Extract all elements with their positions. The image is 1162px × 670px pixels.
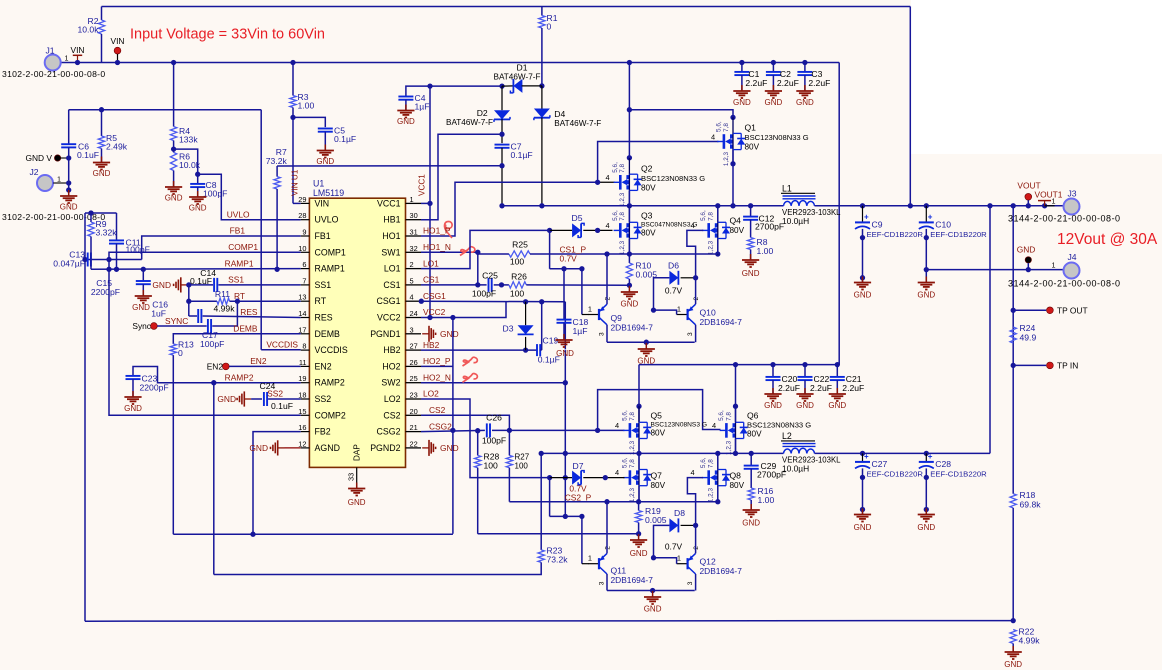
svg-text:3: 3 bbox=[687, 581, 694, 585]
wire R4-R6 tap to C8 bbox=[174, 149, 198, 183]
junction bbox=[908, 203, 913, 208]
svg-text:VCC2: VCC2 bbox=[423, 307, 446, 317]
capacitor C8 bbox=[190, 184, 205, 187]
svg-text:2DB1694-7: 2DB1694-7 bbox=[700, 566, 743, 576]
svg-text:VIN U1: VIN U1 bbox=[291, 169, 300, 196]
junction bbox=[563, 451, 568, 456]
svg-text:2: 2 bbox=[410, 260, 414, 269]
wire bbox=[581, 516, 583, 563]
svg-text:1,2,3: 1,2,3 bbox=[708, 488, 715, 503]
svg-text:J2: J2 bbox=[29, 167, 38, 177]
svg-text:FB1: FB1 bbox=[315, 231, 331, 241]
svg-text:GND V: GND V bbox=[25, 153, 52, 163]
wire SW1 pin to R25 bbox=[421, 251, 478, 253]
svg-text:7,8: 7,8 bbox=[725, 412, 732, 421]
wire bbox=[582, 314, 589, 316]
svg-text:AGND: AGND bbox=[315, 443, 340, 453]
wire bbox=[1013, 364, 1046, 366]
svg-text:CSG1: CSG1 bbox=[377, 296, 401, 306]
junction bbox=[636, 404, 641, 409]
svg-text:GND: GND bbox=[440, 443, 459, 453]
junction bbox=[66, 180, 71, 185]
junction bbox=[715, 203, 720, 208]
svg-text:GND: GND bbox=[630, 549, 648, 558]
pin 11 EN2 bbox=[301, 365, 310, 367]
wire LO2 gate drive bbox=[421, 399, 550, 478]
svg-text:15: 15 bbox=[298, 407, 306, 416]
svg-text:1.00: 1.00 bbox=[298, 101, 315, 111]
wire to C5 bbox=[293, 117, 325, 127]
resistor R3 bbox=[290, 96, 296, 108]
wire D3 cathode bbox=[525, 337, 527, 350]
connector J3 bbox=[1064, 199, 1080, 215]
diode D3 bbox=[518, 325, 534, 334]
junction bbox=[88, 210, 93, 215]
svg-text:SYNC: SYNC bbox=[165, 316, 188, 326]
svg-text:SS2: SS2 bbox=[267, 389, 283, 399]
svg-text:7,8: 7,8 bbox=[629, 459, 636, 468]
junction bbox=[547, 475, 552, 480]
wire VCC1 pin bbox=[421, 202, 430, 204]
svg-text:1: 1 bbox=[1052, 261, 1056, 270]
ground C23 bbox=[124, 391, 141, 404]
svg-text:GND: GND bbox=[742, 519, 760, 528]
wire bbox=[628, 206, 630, 222]
wire bbox=[173, 63, 175, 127]
pin 28 UVLO bbox=[301, 219, 310, 221]
wire emitters bbox=[607, 341, 695, 343]
ground C28 bbox=[918, 509, 935, 522]
junction bbox=[693, 523, 698, 528]
svg-text:26: 26 bbox=[410, 358, 418, 367]
wire bbox=[638, 439, 640, 454]
junction bbox=[106, 267, 111, 272]
wire bbox=[628, 191, 630, 206]
junction bbox=[860, 275, 865, 280]
svg-text:0: 0 bbox=[178, 348, 183, 358]
svg-text:80V: 80V bbox=[745, 143, 760, 152]
junction bbox=[1026, 267, 1031, 272]
ground C1 bbox=[733, 85, 750, 98]
svg-text:11: 11 bbox=[299, 358, 307, 367]
svg-text:0.1µF: 0.1µF bbox=[511, 150, 533, 160]
svg-text:VOUT1: VOUT1 bbox=[1035, 190, 1063, 200]
svg-text:J3: J3 bbox=[1067, 189, 1076, 199]
junction bbox=[427, 315, 432, 320]
svg-text:23: 23 bbox=[410, 391, 418, 400]
junction bbox=[1042, 203, 1047, 208]
wire bbox=[772, 63, 774, 72]
svg-text:2.2uF: 2.2uF bbox=[745, 78, 767, 88]
junction bbox=[636, 499, 641, 504]
svg-text:100: 100 bbox=[510, 257, 525, 267]
svg-text:FB1: FB1 bbox=[230, 226, 246, 236]
wire feedback divider bbox=[1012, 206, 1014, 494]
svg-text:D5: D5 bbox=[572, 213, 583, 223]
wire bbox=[628, 254, 630, 263]
wire DEMB bbox=[173, 334, 300, 344]
pin 19 RAMP2 bbox=[301, 382, 310, 384]
wire bbox=[772, 365, 774, 377]
svg-text:4: 4 bbox=[691, 221, 695, 230]
wire bbox=[68, 110, 70, 145]
svg-text:CSG2: CSG2 bbox=[429, 421, 452, 431]
wire VIN to Q2 drain bbox=[628, 63, 630, 158]
svg-text:EEF-CD1B220R: EEF-CD1B220R bbox=[930, 230, 987, 239]
svg-text:Q2: Q2 bbox=[641, 164, 653, 174]
wire bbox=[804, 380, 806, 393]
svg-text:0.1uF: 0.1uF bbox=[190, 276, 212, 286]
svg-text:Q6: Q6 bbox=[747, 411, 759, 421]
svg-text:GND: GND bbox=[1017, 245, 1036, 255]
svg-text:100pF: 100pF bbox=[126, 245, 150, 255]
svg-text:EEF-CD1B220R: EEF-CD1B220R bbox=[867, 470, 924, 479]
wire bbox=[862, 206, 864, 222]
junction bbox=[539, 83, 544, 88]
capacitor C27 bbox=[855, 452, 870, 469]
pin 14 RES bbox=[301, 317, 310, 319]
svg-text:HO1: HO1 bbox=[382, 231, 400, 241]
svg-text:GND: GND bbox=[917, 523, 935, 532]
svg-text:SW1: SW1 bbox=[381, 247, 400, 257]
svg-text:1: 1 bbox=[65, 54, 69, 63]
wire bbox=[251, 398, 262, 400]
resistor R7 bbox=[274, 177, 280, 189]
resistor R8 bbox=[747, 238, 753, 250]
capacitor C3 bbox=[797, 72, 812, 75]
ground R22 bbox=[1005, 646, 1022, 659]
wire CSG2 bbox=[421, 430, 485, 431]
ground C10 bbox=[918, 277, 935, 290]
pin 15 COMP2 bbox=[301, 414, 310, 416]
wire R25 riser bbox=[477, 252, 479, 285]
svg-text:VIN: VIN bbox=[111, 36, 125, 46]
junction bbox=[475, 250, 480, 255]
ground C21 bbox=[829, 388, 846, 401]
svg-text:13: 13 bbox=[298, 293, 306, 302]
wire C17 to RT bbox=[212, 301, 237, 326]
svg-text:25: 25 bbox=[410, 374, 418, 383]
wire Q9 base feed bbox=[550, 268, 582, 270]
wire bbox=[502, 85, 513, 87]
wire bbox=[1045, 205, 1055, 207]
wire bbox=[142, 284, 144, 295]
wire bbox=[68, 183, 70, 190]
ground J2 bbox=[60, 190, 77, 203]
capacitor C25 bbox=[489, 278, 492, 292]
junction bbox=[595, 428, 600, 433]
svg-text:133k: 133k bbox=[179, 135, 198, 145]
junction bbox=[802, 362, 807, 367]
wire bbox=[804, 63, 806, 72]
wire bootstrap to SW2 bbox=[564, 350, 566, 516]
wire C19 riser bbox=[541, 302, 543, 350]
pin 18 SS2 bbox=[301, 398, 310, 400]
wire bbox=[492, 429, 509, 431]
junction bbox=[770, 362, 775, 367]
svg-text:GND: GND bbox=[397, 117, 415, 126]
svg-text:1µF: 1µF bbox=[573, 326, 588, 336]
svg-text:R18: R18 bbox=[1020, 490, 1036, 500]
testpoint VIN bbox=[114, 47, 121, 54]
pin 10 COMP1 bbox=[301, 251, 310, 253]
wire bbox=[292, 63, 294, 96]
wire bbox=[638, 502, 640, 511]
svg-text:CSG1: CSG1 bbox=[423, 291, 446, 301]
svg-text:J4: J4 bbox=[1067, 252, 1076, 262]
junction bbox=[1011, 203, 1016, 208]
wire UVLO bbox=[198, 174, 301, 220]
junction bbox=[290, 60, 295, 65]
junction bbox=[924, 451, 929, 456]
svg-text:2DB1694-7: 2DB1694-7 bbox=[611, 575, 654, 585]
wire VCC2 pin bbox=[421, 302, 506, 318]
wire Q11 base feed bbox=[550, 515, 582, 517]
svg-text:10.0µH: 10.0µH bbox=[782, 464, 809, 474]
svg-text:J1: J1 bbox=[45, 46, 54, 56]
svg-text:BSC123N08N33 G: BSC123N08N33 G bbox=[641, 174, 705, 183]
svg-text:VCCDIS: VCCDIS bbox=[315, 345, 348, 355]
ground C9 bbox=[854, 277, 871, 290]
svg-text:CS2: CS2 bbox=[383, 410, 400, 420]
ground flag SS1 bbox=[174, 277, 188, 292]
capacitor C13 bbox=[88, 253, 91, 267]
svg-text:LO2: LO2 bbox=[423, 389, 439, 399]
testpoint TP IN bbox=[1047, 362, 1054, 369]
svg-text:29: 29 bbox=[298, 195, 306, 204]
wire bbox=[583, 229, 612, 231]
svg-text:HO1_P: HO1_P bbox=[423, 226, 451, 236]
svg-text:GND: GND bbox=[796, 401, 814, 410]
junction bbox=[507, 428, 512, 433]
wire gate Q2 bbox=[598, 181, 615, 183]
svg-text:L1: L1 bbox=[782, 184, 792, 194]
svg-text:28: 28 bbox=[298, 211, 306, 220]
junction bbox=[1011, 618, 1016, 623]
pin 32 SW1 bbox=[406, 251, 422, 253]
wire bbox=[324, 132, 326, 150]
capacitor C7 bbox=[495, 145, 510, 148]
svg-text:5,6,: 5,6, bbox=[621, 410, 628, 421]
junction bbox=[771, 60, 776, 65]
wire C4 to VCC/D2 node bbox=[406, 86, 502, 96]
wire channel-2 VIN rail bbox=[639, 364, 837, 366]
junction bbox=[715, 451, 720, 456]
junction bbox=[627, 155, 632, 160]
svg-text:100: 100 bbox=[510, 289, 525, 299]
svg-text:GND: GND bbox=[765, 98, 783, 107]
resistor R1 bbox=[539, 16, 545, 29]
wire bbox=[501, 119, 503, 143]
capacitor C2 bbox=[766, 72, 781, 75]
junction bbox=[730, 161, 735, 166]
svg-text:D8: D8 bbox=[674, 508, 685, 518]
svg-text:Sync: Sync bbox=[132, 321, 151, 331]
pin 31 HO1 bbox=[406, 235, 422, 237]
wire bbox=[1027, 263, 1029, 270]
svg-text:BSC123N08NS3 G: BSC123N08NS3 G bbox=[651, 422, 707, 429]
svg-text:3: 3 bbox=[599, 332, 606, 336]
svg-text:HB1: HB1 bbox=[383, 215, 400, 225]
wire bbox=[750, 220, 752, 238]
junction bbox=[450, 315, 455, 320]
svg-text:4: 4 bbox=[691, 468, 695, 477]
svg-text:COMP1: COMP1 bbox=[315, 247, 346, 257]
svg-text:4: 4 bbox=[410, 293, 414, 302]
svg-text:DEMB: DEMB bbox=[315, 329, 341, 339]
testpoint VOUT bbox=[1025, 193, 1032, 200]
wire bbox=[862, 468, 864, 514]
wire bbox=[173, 171, 175, 187]
junction bbox=[235, 299, 240, 304]
junction bbox=[627, 60, 632, 65]
svg-text:GND: GND bbox=[132, 303, 150, 312]
junction bbox=[603, 475, 608, 480]
wire SS1 bbox=[218, 284, 300, 286]
wire bbox=[750, 469, 752, 488]
junction bbox=[860, 203, 865, 208]
svg-text:GND: GND bbox=[316, 157, 334, 166]
svg-text:L2: L2 bbox=[782, 431, 792, 441]
wire bbox=[540, 349, 542, 351]
svg-text:2.2uF: 2.2uF bbox=[842, 383, 864, 393]
svg-text:C28: C28 bbox=[935, 459, 951, 469]
junction bbox=[499, 282, 504, 287]
wire bbox=[750, 500, 752, 510]
wire bbox=[628, 239, 630, 254]
wire bbox=[804, 365, 806, 377]
svg-text:DEMB: DEMB bbox=[233, 324, 258, 334]
svg-text:Q5: Q5 bbox=[651, 411, 663, 421]
svg-text:BSC123N08N33 G: BSC123N08N33 G bbox=[747, 421, 811, 430]
junction bbox=[186, 282, 191, 287]
probe squiggle HO1_P bbox=[444, 222, 452, 239]
ground C18 bbox=[555, 334, 572, 347]
svg-text:1: 1 bbox=[588, 554, 592, 563]
svg-text:12: 12 bbox=[298, 439, 306, 448]
ground C5 bbox=[317, 145, 334, 158]
wire SW1 sense to R7 bbox=[277, 165, 502, 167]
junction bbox=[106, 257, 111, 262]
junction bbox=[141, 267, 146, 272]
wire bbox=[478, 253, 509, 255]
wire bbox=[628, 279, 630, 285]
junction bbox=[499, 203, 504, 208]
svg-text:3.32k: 3.32k bbox=[96, 228, 118, 238]
svg-text:RT: RT bbox=[315, 296, 327, 306]
svg-text:1: 1 bbox=[57, 175, 61, 184]
pin 9 FB1 bbox=[301, 235, 310, 237]
svg-text:4: 4 bbox=[606, 173, 610, 182]
transistor Q3 bbox=[614, 206, 642, 254]
svg-text:9: 9 bbox=[302, 228, 306, 237]
svg-text:Q1: Q1 bbox=[745, 123, 757, 133]
svg-text:8: 8 bbox=[302, 342, 306, 351]
wire bbox=[750, 250, 752, 260]
junction bbox=[835, 362, 840, 367]
svg-text:22: 22 bbox=[410, 439, 418, 448]
svg-text:32: 32 bbox=[410, 244, 418, 253]
wire bbox=[101, 110, 103, 136]
wire RAMP2 bbox=[133, 367, 301, 383]
wire bbox=[681, 277, 696, 279]
junction bbox=[651, 555, 656, 560]
pin 7 SS1 bbox=[301, 284, 310, 286]
diode D1 bbox=[510, 79, 522, 93]
svg-text:80V: 80V bbox=[730, 481, 745, 490]
svg-text:VCC2: VCC2 bbox=[377, 313, 401, 323]
junction bbox=[627, 251, 632, 256]
wire RES bbox=[203, 316, 301, 318]
svg-text:3144-2-00-21-00-00-08-0: 3144-2-00-21-00-00-08-0 bbox=[1008, 279, 1121, 289]
junction bbox=[987, 203, 992, 208]
svg-text:2200pF: 2200pF bbox=[91, 287, 120, 297]
ground R5 bbox=[93, 157, 110, 170]
svg-text:R11: R11 bbox=[215, 289, 230, 299]
svg-text:4: 4 bbox=[615, 421, 619, 430]
ground flag PGND2 bbox=[422, 440, 435, 456]
svg-text:R27: R27 bbox=[515, 453, 530, 462]
wire bbox=[772, 75, 774, 90]
junction bbox=[499, 132, 504, 137]
svg-text:FB2: FB2 bbox=[315, 427, 331, 437]
svg-text:5,6,: 5,6, bbox=[621, 457, 628, 468]
svg-text:80V: 80V bbox=[641, 229, 656, 238]
wire bbox=[549, 478, 551, 517]
svg-text:0.7V: 0.7V bbox=[665, 542, 683, 552]
pin 23 LO2 bbox=[406, 398, 422, 400]
wire bbox=[477, 431, 479, 456]
svg-text:GND: GND bbox=[440, 329, 459, 339]
wire HO2 bbox=[421, 365, 453, 367]
wire Q10 collector bbox=[695, 278, 697, 304]
wire AGND bbox=[285, 447, 301, 449]
svg-text:21: 21 bbox=[410, 423, 418, 432]
svg-text:2DB1694-7: 2DB1694-7 bbox=[611, 323, 654, 333]
wire bbox=[549, 230, 551, 268]
wire CS2_P sources line bbox=[509, 501, 717, 503]
svg-text:1: 1 bbox=[677, 305, 681, 314]
pin 29 VIN bbox=[301, 202, 310, 204]
wire bbox=[117, 54, 119, 63]
resistor R24 bbox=[1010, 327, 1016, 343]
svg-text:Input Voltage = 33Vin to 60Vin: Input Voltage = 33Vin to 60Vin bbox=[130, 27, 325, 43]
junction bbox=[211, 380, 216, 385]
wire bbox=[494, 284, 509, 286]
svg-text:COMP2: COMP2 bbox=[315, 410, 346, 420]
svg-text:HO1_N: HO1_N bbox=[423, 242, 451, 252]
wire comp network top bbox=[85, 212, 117, 214]
wire Q12 emitter bbox=[695, 574, 697, 591]
diode D7 bbox=[572, 471, 584, 485]
svg-text:80V: 80V bbox=[651, 429, 666, 438]
svg-text:0.7V: 0.7V bbox=[560, 254, 578, 264]
diode D5 bbox=[572, 223, 584, 237]
svg-text:2.2uF: 2.2uF bbox=[777, 78, 799, 88]
svg-text:EEF-CD1B220R: EEF-CD1B220R bbox=[930, 470, 987, 479]
capacitor C12 bbox=[743, 217, 758, 220]
wire bbox=[550, 477, 573, 479]
wire Q10 base bbox=[654, 310, 677, 314]
resistor R22 bbox=[1010, 630, 1016, 644]
wire to VOUT rail bbox=[989, 206, 991, 454]
capacitor C24 bbox=[264, 392, 267, 406]
capacitor C18 bbox=[557, 320, 572, 323]
svg-text:GND: GND bbox=[189, 204, 207, 213]
svg-text:LO1: LO1 bbox=[384, 264, 401, 274]
svg-text:19: 19 bbox=[298, 374, 306, 383]
svg-text:C10: C10 bbox=[935, 220, 951, 230]
